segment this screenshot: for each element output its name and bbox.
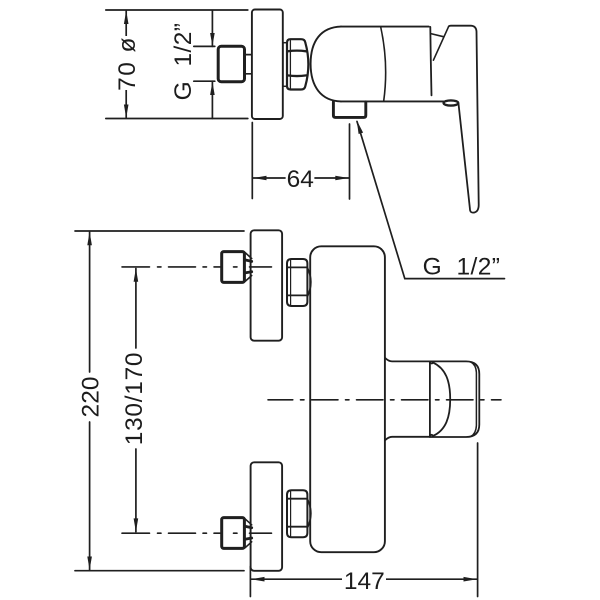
- dimension 70 arrow up: [124, 11, 129, 25]
- dimension 130/170 line lower: [135, 449, 137, 532]
- tick lower (nut bottom): [194, 80, 215, 82]
- front view top inlet nut (thick): [222, 252, 245, 283]
- front view bottom hex nut: [287, 490, 307, 537]
- faucet body dome (top view): [311, 27, 341, 102]
- top hex nut inner vertical: [290, 260, 292, 306]
- svg-text:70 ø: 70 ø: [114, 36, 141, 91]
- dimension G1/2 vertical line upper: [211, 11, 213, 47]
- body inner separation curve: [381, 27, 386, 101]
- body bottom edge: [341, 100, 444, 102]
- dimension 64 arrow left: [253, 176, 267, 181]
- outlet (thick): [333, 102, 365, 118]
- svg-text:147: 147: [344, 568, 385, 595]
- handle lever outline: [449, 26, 479, 213]
- white mask behind 220 text: [78, 374, 101, 419]
- hex nut inner vertical line: [289, 41, 291, 89]
- dimension 64 left extension: [251, 123, 253, 199]
- leader line G1/2 (top view outlet): [357, 122, 505, 279]
- svg-text:220: 220: [77, 377, 104, 418]
- dimension 64 arrow right: [335, 176, 349, 181]
- dimension 70 line lower segment: [125, 90, 127, 118]
- stem-knob boundary: [429, 361, 431, 436]
- white mask behind 147 text: [342, 570, 386, 590]
- handle knob outline: [430, 361, 479, 437]
- dimension 64 right extension: [349, 124, 351, 199]
- white mask behind 70 text: [112, 36, 140, 90]
- knob inner right edge: [471, 362, 477, 437]
- inlet nut side view (thick): [218, 46, 244, 81]
- bottom hex nut inner vertical: [290, 491, 292, 537]
- handle stem bottom edge: [385, 437, 430, 441]
- top view: extension line top (70 dia): [106, 9, 248, 11]
- hex nut chamfer line lower: [288, 74, 307, 77]
- dimension G1/2 arrow up: [210, 82, 215, 95]
- dimension 220 line lower: [89, 422, 91, 570]
- wall plate side view: [252, 10, 283, 120]
- dimension 64 line left part: [253, 177, 285, 179]
- faucet body front view: [310, 246, 385, 552]
- svg-text:130/170: 130/170: [121, 352, 148, 445]
- dimension 220 arrow down: [87, 557, 92, 571]
- top view: extension line bottom (70 dia): [106, 118, 248, 120]
- svg-text:G 1/2”: G 1/2”: [170, 23, 197, 101]
- stub between plate and hex nut: [283, 43, 287, 87]
- dimension 70 line upper segment: [125, 11, 127, 37]
- bottom hex nut chamfer lines: [287, 499, 307, 527]
- dimension 64 line right part: [315, 177, 349, 179]
- dimension 130/170 arrow down: [134, 518, 139, 532]
- handle collar lower diagonal (front edge upper): [433, 27, 448, 61]
- front view: extension line bottom (220): [75, 570, 244, 572]
- handle collar upper diagonal: [430, 34, 443, 37]
- front view bottom inlet nut (thick): [222, 518, 245, 549]
- centerline main horizontal: [268, 399, 501, 401]
- top hex nut chamfer lines: [287, 267, 307, 295]
- handle pivot lens: [444, 100, 459, 105]
- hex nut chamfer line upper: [288, 50, 307, 53]
- inlet stub lower line: [245, 73, 251, 75]
- dimension 147 arrow right: [464, 577, 478, 582]
- front view bottom wall plate: [251, 462, 283, 571]
- dimension 130/170 arrow up: [134, 268, 139, 282]
- knob dome arc: [430, 362, 450, 436]
- dimension 130/170 line upper: [135, 269, 137, 349]
- dimension 220 arrow up: [87, 232, 92, 246]
- dimension 70 arrow down: [124, 105, 129, 119]
- bottom hex nut bulge arc: [308, 499, 311, 528]
- inlet stub upper line: [245, 54, 251, 56]
- dimension G1/2 vertical line lower: [211, 81, 213, 118]
- top hex nut bulge arc: [308, 268, 311, 297]
- dimension 220 line upper: [89, 232, 91, 372]
- leader arrowhead: [357, 120, 363, 134]
- bottom inlet cone lines: [245, 519, 252, 548]
- front view: extension line top (220): [75, 230, 244, 232]
- dimension 147 left extension: [249, 567, 251, 597]
- handle stem top edge: [385, 358, 430, 362]
- front view top wall plate: [251, 230, 283, 340]
- hex nut side view: [287, 39, 308, 89]
- tick upper (nut top): [194, 45, 215, 47]
- body right edge: [430, 27, 431, 96]
- top inlet cone lines: [245, 253, 252, 282]
- svg-text:64: 64: [287, 166, 314, 193]
- svg-text:G 1/2”: G 1/2”: [423, 254, 501, 281]
- dimension 147 arrow left: [251, 577, 265, 582]
- centerline bottom inlet: [122, 532, 272, 534]
- white mask behind 130/170 text: [122, 350, 146, 447]
- dimension G1/2 arrow down: [210, 33, 215, 46]
- body top edge: [341, 26, 429, 28]
- dimension 147 line: [251, 578, 477, 580]
- centerline top inlet: [122, 266, 272, 268]
- dimension 147 right extension: [477, 443, 479, 597]
- front view top hex nut: [287, 259, 307, 306]
